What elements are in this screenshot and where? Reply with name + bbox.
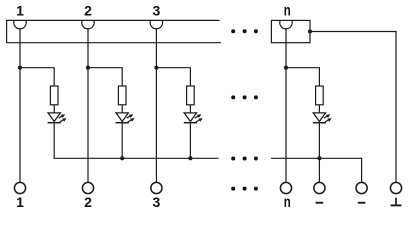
wire: terminal 2 vertical down to bottom plug 2 <box>87 28 89 183</box>
LED n cathode bar <box>313 122 326 124</box>
bottom label minus-a <box>316 202 324 204</box>
wire: branch from junction 1 to resistor column <box>20 68 54 86</box>
wire: branch from junction 3 to resistor column <box>156 68 190 86</box>
plug contact n (circle) <box>280 182 291 193</box>
svg-text:n: n <box>284 3 291 20</box>
LED 1 cathode bar <box>48 122 61 124</box>
LED 1 light emission arrow b <box>60 118 67 122</box>
wire: LED n down to bus <box>318 123 320 183</box>
svg-text:1: 1 <box>16 3 24 19</box>
LED 3 light emission arrow a <box>195 114 202 118</box>
resistor R3 <box>187 86 195 105</box>
ellipsis dots (top row) <box>231 29 258 33</box>
resistor R1 <box>50 86 58 105</box>
wire: terminal 3 vertical down to bottom plug 3 <box>155 28 157 183</box>
svg-text:3: 3 <box>153 194 161 210</box>
node: junction LED2 column / bus <box>120 156 124 160</box>
node: junction LED3 column / bus <box>188 156 192 160</box>
plug contact minus-b (circle) <box>356 182 367 193</box>
svg-text:n: n <box>284 194 291 211</box>
terminal 2 socket contact arc <box>82 20 94 28</box>
resistor Rn <box>316 86 324 105</box>
terminal n socket contact arc <box>280 20 292 28</box>
plug contact ground (circle) <box>390 182 401 193</box>
LED 2 light emission arrow b <box>128 118 135 122</box>
wire: common bus (right segment) down to minus plug <box>271 158 362 183</box>
terminal strip box (channel n) <box>271 20 310 42</box>
wire: LED 3 down to bus <box>189 123 191 159</box>
wire: common bus (left segment) <box>54 157 219 159</box>
ellipsis dots (plug row) <box>231 187 258 191</box>
node: junction LEDn column / bus <box>317 156 321 160</box>
svg-text:2: 2 <box>84 194 92 210</box>
wire: LED 1 down to bus <box>53 123 55 159</box>
LED 3 (diode triangle) <box>184 113 196 122</box>
LED 1 (diode triangle) <box>48 113 60 122</box>
terminal 3 socket contact arc <box>150 20 162 28</box>
bottom label ground symbol <box>391 198 402 206</box>
bottom label minus-b <box>358 202 366 204</box>
terminal strip box (channels 1-3) <box>7 20 221 42</box>
node: junction on channel n wire <box>284 66 288 70</box>
plug contact 1 (circle) <box>14 182 25 193</box>
wire: branch from junction n to resistor column <box>286 68 319 86</box>
wire: branch from junction 2 to resistor column <box>88 68 122 86</box>
svg-text:1: 1 <box>16 194 24 210</box>
plug contact 2 (circle) <box>82 182 93 193</box>
wire: n-box junction to right edge and down to ground plug <box>310 32 396 183</box>
plug contact 3 (circle) <box>151 182 162 193</box>
plug contact minus-a (circle) <box>314 182 325 193</box>
node: junction on channel-n box right edge <box>308 29 312 33</box>
wire: terminal n vertical down to bottom plug n <box>285 28 287 183</box>
LED 1 light emission arrow a <box>59 114 66 118</box>
LED 2 light emission arrow a <box>127 114 134 118</box>
LED n (diode triangle) <box>313 113 325 122</box>
node: junction on channel 3 wire <box>154 66 158 70</box>
LED n light emission arrow b <box>325 118 332 122</box>
wire: resistor R3 to LED3 <box>189 105 191 113</box>
ellipsis dots (bus row) <box>231 157 258 161</box>
wire: resistor R1 to LED1 <box>53 105 55 113</box>
svg-text:3: 3 <box>153 3 161 19</box>
LED 2 (diode triangle) <box>116 113 128 122</box>
resistor R2 <box>118 86 126 105</box>
node: junction on channel 1 wire <box>18 66 22 70</box>
wire: LED 2 down to bus <box>121 123 123 159</box>
wire: resistor Rn to LEDn <box>318 105 320 113</box>
LED 3 light emission arrow b <box>196 118 203 122</box>
ellipsis dots (LED row) <box>231 95 258 99</box>
LED 3 cathode bar <box>184 122 197 124</box>
svg-text:2: 2 <box>84 3 92 19</box>
LED 2 cathode bar <box>116 122 129 124</box>
terminal 1 socket contact arc <box>14 20 26 28</box>
LED n light emission arrow a <box>324 114 331 118</box>
node: junction on channel 2 wire <box>86 66 90 70</box>
wire: terminal 1 vertical down to bottom plug 1 <box>19 28 21 183</box>
wire: resistor R2 to LED2 <box>121 105 123 113</box>
